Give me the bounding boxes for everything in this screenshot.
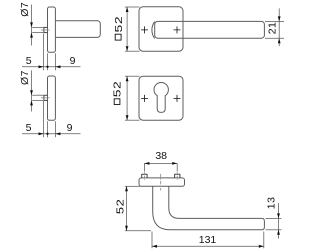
- lever neck end cap V3: [152, 22, 155, 39]
- arrow right tip 38 V5: [172, 162, 177, 165]
- extension line rosette front down V1: [47, 53, 49, 70]
- square rosette V3: [139, 7, 183, 51]
- extension line rosette back down V1: [54, 53, 56, 70]
- screw hole cross left V3: [141, 26, 148, 33]
- svg-text:52: 52: [111, 81, 123, 98]
- svg-text:9: 9: [70, 55, 76, 67]
- dimension line 5 and 9 V2: [22, 133, 81, 135]
- arrow left tip 38 V5: [144, 162, 149, 165]
- dimension line 5 and 9 V1: [22, 66, 81, 68]
- arrow down tip 21 V3: [278, 16, 281, 21]
- dimension line 52 V5: [126, 186, 128, 230]
- screw centerline left V5: [143, 172, 145, 180]
- arrow up tip V2: [30, 100, 33, 105]
- svg-text:52: 52: [114, 199, 126, 214]
- svg-text:52: 52: [113, 16, 125, 33]
- lever bar V3: [155, 21, 265, 38]
- lever bar side V1: [55, 21, 100, 38]
- dimension line square 52 V3: [126, 7, 128, 51]
- arrow left tip 131 V5: [152, 245, 157, 248]
- extension line screw right 38 V5: [176, 163, 178, 171]
- arrow down tip V1: [30, 22, 33, 27]
- arrow right tip V1: [39, 65, 44, 68]
- svg-text:5: 5: [26, 55, 32, 67]
- dimension line 131 V5: [152, 245, 264, 247]
- dimension line diameter 7 V1: [31, 5, 33, 46]
- extension line grip left 131 V5: [151, 232, 153, 249]
- dimension line 21 V3: [278, 8, 280, 46]
- dimension dot V2: [46, 133, 48, 135]
- arrow down tip 52 V5: [125, 226, 128, 231]
- dimension dot V1: [46, 66, 48, 68]
- arrow up tip V4: [126, 76, 129, 81]
- svg-text:21: 21: [266, 22, 278, 35]
- extension line rosette top V4: [125, 75, 140, 77]
- centerline through stub V2: [41, 97, 50, 99]
- arrow up tip V3: [126, 7, 129, 12]
- extension line bar end 131 V5: [263, 232, 265, 249]
- svg-text:38: 38: [155, 150, 167, 162]
- svg-text:9: 9: [67, 122, 73, 134]
- svg-text:131: 131: [199, 234, 217, 246]
- arrow down tip V3: [126, 46, 129, 51]
- centerline through stub V1: [41, 29, 50, 31]
- rosette edge bar V5: [139, 178, 185, 186]
- svg-text:Ø7: Ø7: [19, 2, 31, 17]
- arrow left tip V1: [55, 65, 60, 68]
- svg-text:5: 5: [26, 122, 32, 134]
- screw hole cross right V4: [174, 95, 181, 102]
- lever grip outline V5: [153, 186, 265, 229]
- dimension line 13 V5: [278, 203, 280, 239]
- extension line grip bottom 52 V5: [125, 230, 151, 232]
- arrow down tip V4: [126, 115, 129, 120]
- extension line rosette front 52 V5: [125, 185, 141, 187]
- extension line stub bottom V2: [32, 99, 43, 101]
- extension line bar bottom 21 V3: [265, 37, 284, 39]
- rosette side profile V2: [48, 76, 56, 120]
- euro profile keyhole V4: [154, 83, 168, 113]
- extension line stub bottom V1: [32, 32, 43, 34]
- label square symbol V3: [115, 34, 121, 40]
- extension line rosette front down V2: [47, 121, 49, 137]
- extension line rosette back down V2: [54, 121, 56, 137]
- arrow down tip 13 V5: [277, 213, 280, 218]
- extension line rosette top V3: [125, 6, 140, 8]
- screw right V5: [175, 174, 180, 178]
- extension line rosette bottom V4: [125, 119, 140, 121]
- extension line stub tip down V2: [43, 101, 45, 137]
- square rosette V4: [139, 76, 183, 120]
- dimension line square 52 V4: [126, 76, 128, 120]
- svg-text:Ø7: Ø7: [19, 70, 31, 85]
- extension line bar top 13 V5: [266, 217, 282, 219]
- arrow up tip V1: [30, 33, 33, 38]
- screw centerline right V5: [176, 172, 178, 180]
- arrow down tip V2: [30, 90, 33, 95]
- cylinder stub V2: [44, 95, 48, 100]
- extension line bar bottom 13 V5: [266, 229, 282, 231]
- extension line screw left 38 V5: [143, 163, 145, 171]
- extension line stub top V1: [32, 26, 43, 28]
- arrow right tip 131 V5: [259, 245, 264, 248]
- screw left V5: [142, 174, 147, 178]
- arrow up tip 21 V3: [278, 38, 281, 43]
- dimension line 38 V5: [144, 162, 177, 164]
- arrow right tip V2: [39, 132, 44, 135]
- dimension line diameter 7 V2: [31, 70, 33, 111]
- extension line stub tip down V1: [43, 34, 45, 71]
- arrow up tip 52 V5: [125, 186, 128, 191]
- svg-text:13: 13: [265, 197, 277, 210]
- rosette centerline V5: [160, 174, 162, 191]
- label square symbol V4: [114, 99, 120, 105]
- spindle stub 7mm V1: [44, 27, 48, 32]
- rosette side profile V1: [48, 7, 56, 52]
- arrow up tip 13 V5: [277, 230, 280, 235]
- extension line rosette bottom V3: [125, 50, 140, 52]
- extension line bar top 21 V3: [265, 20, 284, 22]
- screw hole cross left V4: [141, 95, 148, 102]
- extension line stub top V2: [32, 94, 43, 96]
- arrow left tip V2: [55, 132, 60, 135]
- screw hole cross right V3: [174, 26, 181, 33]
